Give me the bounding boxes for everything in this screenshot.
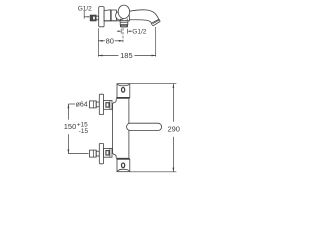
- handle knob: [118, 5, 129, 18]
- extension line at spout tip: [155, 27, 157, 57]
- dimension 150 extension bottom: [68, 153, 88, 155]
- connector neck: [96, 16, 99, 20]
- escutcheon (side): [99, 7, 104, 27]
- arrow pointing left at outlet: [130, 30, 132, 32]
- svg-text:150: 150: [64, 122, 77, 131]
- body mid section: [111, 10, 116, 21]
- dimension 80 line: [98, 40, 105, 42]
- lever handle: [127, 123, 162, 130]
- svg-text:-15: -15: [79, 128, 89, 135]
- svg-text:ø64: ø64: [76, 102, 88, 109]
- body ring divider: [110, 10, 112, 21]
- centerline of outlet (dash-dot): [122, 28, 124, 44]
- wire: leader vertical from label: [83, 11, 85, 19]
- escutcheon (bottom inlet): [99, 143, 103, 163]
- svg-text:290: 290: [167, 125, 180, 134]
- bottom inlet fitting: [90, 143, 113, 163]
- neck (top inlet): [96, 102, 99, 107]
- dimension 290 extension top: [130, 83, 177, 85]
- body bottom line: [104, 20, 130, 22]
- outlet width extension lines: [120, 29, 122, 34]
- leader for label ø64: [68, 103, 75, 105]
- knob hole 0 (top): [122, 87, 125, 92]
- spout: [129, 10, 159, 24]
- bottom cap thick line: [116, 158, 130, 160]
- knob hole 0 (bottom): [122, 163, 125, 168]
- escutcheon (top inlet): [99, 94, 103, 114]
- body bottom cap: [117, 159, 130, 171]
- dimension 290 line: [172, 84, 174, 122]
- body column outline left: [113, 99, 117, 158]
- spout mouth cap: [152, 19, 161, 25]
- svg-text:80: 80: [106, 36, 114, 45]
- left extension line (wall face): [97, 28, 99, 56]
- wire: leader horizontal to nut: [84, 16, 89, 18]
- shower outlet cap: [120, 25, 128, 28]
- wall connection nut: [90, 15, 96, 21]
- cap base thick line: [116, 97, 130, 99]
- joint ring: [116, 11, 125, 20]
- dimension 185 line: [98, 55, 118, 57]
- nut (top inlet): [90, 101, 97, 108]
- dimension 290 extension bottom: [130, 171, 177, 173]
- shower outlet upper: [120, 21, 128, 25]
- svg-text:G1/2: G1/2: [78, 5, 92, 12]
- body top cap: [117, 84, 130, 98]
- svg-text:G1/2: G1/2: [132, 29, 146, 36]
- svg-text:185: 185: [120, 51, 133, 60]
- eccentric connector (top inlet): [104, 101, 112, 110]
- body cone section: [104, 10, 111, 21]
- eccentric connector (bottom inlet): [104, 148, 112, 157]
- nut (bottom inlet): [90, 150, 97, 157]
- dimension 150 line: [67, 104, 69, 120]
- top inlet fitting: [90, 94, 113, 114]
- knob base: [120, 19, 122, 21]
- arrow pointing right at outlet: [117, 30, 119, 32]
- neck (bottom inlet): [96, 151, 99, 156]
- body column outline right: [128, 99, 130, 124]
